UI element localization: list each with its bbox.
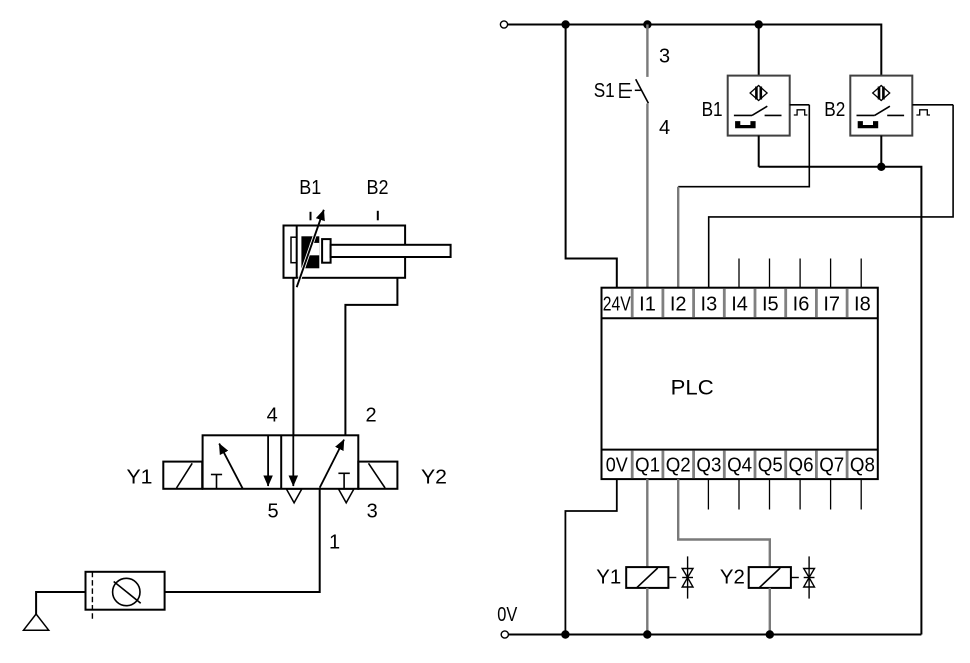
svg-text:I3: I3 — [701, 294, 718, 316]
stub Q6 — [799, 479, 801, 509]
B2 output line — [912, 104, 953, 106]
svg-text:Q8: Q8 — [850, 454, 875, 476]
node rail-B1 — [755, 20, 763, 28]
wire B1 output to PLC I2 — [678, 105, 809, 187]
svg-text:Q5: Q5 — [758, 454, 783, 476]
svg-text:Q1: Q1 — [635, 454, 660, 476]
PLC input terminal dividers — [632, 289, 847, 318]
svg-text:3: 3 — [367, 500, 378, 522]
valve V1 body — [203, 435, 359, 489]
stub I7 — [830, 259, 832, 288]
sensor B2 box — [850, 76, 912, 136]
B2 pulse symbol — [916, 110, 930, 115]
wire air unit to exhaust triangle — [36, 592, 85, 614]
PLC U1 body — [602, 288, 878, 479]
suppressor diode Y1 — [682, 556, 693, 598]
svg-text:PLC: PLC — [671, 376, 714, 399]
svg-text:I7: I7 — [823, 294, 840, 316]
stub Q4 — [738, 479, 740, 509]
stub I6 — [799, 259, 801, 288]
svg-text:B1: B1 — [702, 99, 723, 121]
node B2 minus — [877, 163, 885, 171]
cylinder rod plate — [322, 239, 331, 263]
svg-text:0V: 0V — [497, 604, 518, 626]
coil Y1 — [626, 567, 668, 588]
svg-text:Q6: Q6 — [789, 454, 814, 476]
stub Q3 — [707, 479, 709, 509]
sensor position tick B2 — [377, 211, 379, 221]
node rail-S1 — [643, 20, 651, 28]
svg-text:Q3: Q3 — [696, 454, 721, 476]
node rail-0V — [561, 630, 569, 638]
wire rail to switch S1 — [646, 25, 648, 77]
wire cylinder right port to valve port 2 — [345, 278, 397, 436]
svg-text:0V: 0V — [606, 454, 629, 476]
coil Y1 suppressor link — [668, 577, 676, 579]
cylinder A1 barrel — [284, 226, 406, 278]
air service unit Z1 — [86, 572, 165, 621]
valve left-position down arrow — [267, 435, 269, 486]
wire PLC Q2 to coil Y2 — [678, 479, 770, 567]
valve left-position arrow — [219, 444, 243, 489]
valve right-position arrow (1 to 2) — [320, 440, 344, 488]
svg-text:Y2: Y2 — [421, 467, 447, 489]
wire valve port 1 to air service unit — [165, 489, 320, 592]
svg-text:4: 4 — [659, 117, 670, 139]
wire S1 to PLC I1 — [646, 104, 648, 288]
svg-text:I8: I8 — [854, 294, 871, 316]
exhaust triangle port 5 — [286, 489, 301, 503]
wire rail to sensor B2 — [880, 25, 881, 76]
exhaust triangle port 3 — [339, 489, 354, 503]
wire PLC 0V to rail — [565, 479, 616, 634]
svg-text:I2: I2 — [670, 294, 687, 316]
B1 pulse symbol — [794, 110, 808, 115]
cylinder piston (magnet) — [301, 236, 319, 268]
node rail-Y2 — [766, 630, 774, 638]
svg-text:24V: 24V — [603, 294, 632, 316]
sensor minus bus — [759, 167, 922, 635]
svg-text:Q7: Q7 — [819, 454, 844, 476]
suppressor diode Y2 — [804, 556, 815, 598]
svg-text:I6: I6 — [793, 294, 810, 316]
svg-text:B1: B1 — [299, 177, 321, 199]
svg-text:Y2: Y2 — [720, 567, 745, 589]
wire cylinder left port to valve port 4 — [292, 278, 294, 436]
svg-text:1: 1 — [329, 532, 340, 554]
sensor position tick B1 — [310, 212, 312, 221]
0V rail — [508, 634, 921, 636]
+24V rail — [508, 24, 882, 26]
svg-text:Y1: Y1 — [596, 567, 621, 589]
svg-text:Q4: Q4 — [727, 454, 752, 476]
stub I4 — [738, 259, 740, 288]
valve left-position plug T — [211, 475, 222, 489]
svg-text:B2: B2 — [367, 177, 389, 199]
svg-text:3: 3 — [659, 46, 670, 68]
switch S1 actuator E — [620, 84, 641, 97]
wire B2 output to PLC I3 — [709, 105, 953, 288]
svg-text:Q2: Q2 — [666, 454, 691, 476]
sensor B1 box — [728, 76, 790, 136]
+24V terminal circle — [500, 21, 507, 28]
valve right-position down arrow (4 to 5) — [292, 435, 294, 486]
coil Y2 suppressor link — [791, 577, 799, 579]
supply triangle — [24, 614, 49, 630]
wire segment to I2 terminal — [677, 187, 679, 288]
cylinder piston rod — [331, 245, 451, 257]
svg-text:2: 2 — [365, 405, 376, 427]
wire B1 minus — [758, 136, 760, 167]
stub I5 — [769, 259, 771, 288]
B1 output line — [790, 104, 810, 106]
wire rail to sensor B1 — [758, 25, 760, 76]
svg-text:I4: I4 — [731, 294, 748, 316]
svg-text:4: 4 — [267, 405, 278, 427]
stub Q8 — [860, 479, 862, 509]
wire rail to PLC 24V — [566, 25, 617, 288]
svg-text:Y1: Y1 — [127, 467, 153, 489]
0V terminal circle — [501, 631, 508, 638]
switch S1 blade — [636, 79, 649, 103]
svg-text:S1: S1 — [594, 80, 615, 102]
cylinder cushion rect — [291, 237, 297, 263]
B1 sensor arrow — [297, 210, 324, 287]
wire coil Y2 to 0V rail — [769, 588, 771, 635]
solenoid Y2 — [358, 462, 397, 489]
stub Q7 — [830, 479, 832, 509]
node rail-24V — [561, 20, 569, 28]
svg-text:5: 5 — [268, 500, 279, 522]
wire B2 minus — [880, 136, 882, 167]
wire coil Y1 to 0V rail — [646, 588, 648, 635]
solenoid Y1 — [163, 462, 202, 489]
stub Q5 — [769, 479, 771, 509]
stub I8 — [860, 259, 862, 288]
node rail-Y1 — [643, 630, 651, 638]
wire PLC Q1 to coil Y1 — [646, 479, 648, 567]
PLC output terminal dividers — [632, 451, 847, 479]
coil Y2 — [749, 567, 791, 588]
svg-text:B2: B2 — [824, 99, 845, 121]
valve right-position plug T — [338, 473, 349, 489]
svg-text:I1: I1 — [639, 294, 656, 316]
svg-text:I5: I5 — [762, 294, 779, 316]
